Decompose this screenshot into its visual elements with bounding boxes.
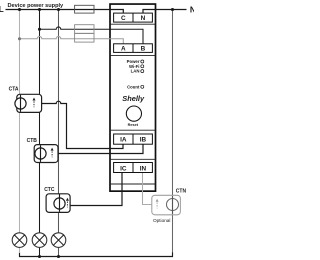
CTB K-L direction arrow: [51, 148, 54, 158]
wire: phase drop B through CTB to lamp E2: [39, 10, 41, 234]
svg-text:Optional: Optional: [153, 218, 170, 223]
terminal block IC IN: [114, 163, 153, 173]
svg-text:B: B: [141, 45, 146, 52]
device U1 divider below C/N terminals: [110, 23, 156, 25]
svg-text:IB: IB: [140, 137, 147, 144]
svg-text:Device power supply: Device power supply: [8, 3, 65, 9]
svg-text:Reset: Reset: [128, 123, 139, 127]
wire: CTA secondary to terminal IA with hop over drop C: [42, 101, 123, 148]
svg-text:CTA: CTA: [9, 86, 19, 92]
current transformer CTB body: [34, 145, 58, 163]
wire: lamp E1 bottom lead: [19, 247, 21, 253]
wire: lamp E2 bottom lead: [39, 247, 41, 256]
svg-text:L: L: [0, 4, 4, 14]
wire: rail 3 through fuse F3 to terminal A with hops over drops B and C: [20, 36, 124, 43]
svg-text:IN: IN: [140, 165, 147, 172]
junction dot return bus/lamp E3: [57, 255, 60, 258]
terminal block A B: [114, 44, 153, 53]
junction dot rail1/drop A: [18, 8, 21, 11]
svg-text:CTC: CTC: [44, 187, 55, 193]
fuse F3: [75, 34, 94, 43]
junction dot N feeder/neutral bus: [171, 8, 174, 11]
svg-text:C: C: [121, 15, 126, 22]
device U1 divider above IA/IB terminals: [110, 129, 156, 131]
CTC K-L direction arrow: [66, 198, 69, 208]
CTA K-L direction arrow: [33, 98, 36, 108]
wire: rail 2 through fuse F2 to terminal B with hop over drop C: [40, 27, 144, 44]
current transformer CTC body: [46, 194, 70, 213]
optional current transformer CTN body: [152, 195, 181, 215]
terminal block IA IB: [114, 134, 153, 144]
junction dot rail3/drop A: [18, 37, 21, 40]
fuse F2: [75, 25, 94, 34]
svg-text:IC: IC: [120, 165, 127, 172]
svg-text:Count: Count: [127, 84, 140, 89]
svg-text:CTB: CTB: [27, 138, 38, 144]
junction dot rail2/drop B: [38, 28, 41, 31]
wire: phase drop C through CTC to lamp E3: [58, 10, 60, 234]
LED indicator Power: [141, 60, 144, 63]
wire: terminal IN to optional CTN: [143, 173, 152, 205]
wire: CTC secondary to terminal IC: [70, 173, 122, 206]
device U1 divider below A/B terminals: [110, 54, 156, 56]
svg-text:LAN: LAN: [131, 69, 140, 74]
LED indicator LAN: [141, 70, 144, 73]
LED indicator Wi-Fi: [141, 65, 144, 68]
fuse F1: [75, 5, 94, 13]
wire: N feeder from node N to terminal N: [143, 10, 187, 14]
svg-text:Shelly: Shelly: [122, 94, 145, 103]
lamp E3: [51, 233, 66, 248]
junction dot rail1/drop B: [38, 8, 41, 11]
LED indicator Count: [141, 85, 144, 88]
junction dot return bus/lamp E2: [38, 255, 41, 258]
svg-text:CTN: CTN: [176, 188, 187, 194]
wire: phase drop A through CTA to lamp E1: [19, 10, 21, 234]
lamp E1: [12, 233, 27, 248]
device U1 Shelly outer enclosure: [110, 4, 156, 191]
wire: neutral bus vertical to lamps and CTN: [172, 10, 174, 254]
current transformer CTA body: [15, 94, 42, 112]
lamp E2: [32, 233, 47, 248]
wire: lamp E3 bottom lead: [58, 247, 60, 256]
svg-text:A: A: [121, 45, 126, 52]
svg-text:N: N: [190, 4, 194, 14]
reset button: [126, 106, 141, 121]
wire: L rail from node L through fuse F1 to terminal C: [6, 10, 124, 14]
junction dot rail1/drop C: [57, 8, 60, 11]
CTN K-L direction arrow: [156, 199, 159, 209]
device U1 divider above IC/IN terminals: [110, 158, 156, 160]
svg-text:IA: IA: [120, 137, 127, 144]
wire: lamp return bus to neutral: [20, 253, 173, 257]
wire: CTB secondary to terminal IB: [58, 144, 143, 154]
svg-text:N: N: [141, 15, 146, 22]
terminal block C N: [114, 13, 153, 22]
device U1 divider below IC/IN terminals: [110, 183, 156, 185]
